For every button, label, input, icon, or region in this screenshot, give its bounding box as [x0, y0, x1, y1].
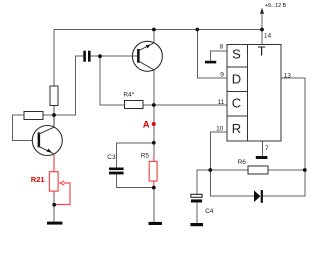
- capacitor C3: [109, 168, 124, 175]
- ground under C4: [190, 223, 203, 226]
- wire node to C4 top: [197, 170, 210, 194]
- wire R21 bottom to ground: [53, 194, 55, 222]
- wire node to C2 left plate: [54, 56, 83, 115]
- junction pin 13/R6/diode node: [303, 168, 307, 172]
- wire pin 13 to right bus: [263, 78, 305, 196]
- diode VD1: [254, 190, 263, 203]
- svg-text:C3: C3: [107, 154, 116, 161]
- capacitor C2 (coupling): [83, 51, 90, 62]
- wire pin 11: [154, 104, 227, 106]
- wire power stem: [261, 14, 263, 30]
- svg-text:10: 10: [216, 125, 224, 132]
- wire pin 14: [261, 30, 263, 45]
- wire C4 bottom to ground: [196, 203, 198, 224]
- resistor R21 (red trimmer): [49, 154, 70, 205]
- svg-text:+9...12 В: +9...12 В: [265, 3, 287, 9]
- resistor R2 (horizontal, base bias): [24, 111, 43, 119]
- ground pin 8: [205, 61, 216, 64]
- svg-text:R: R: [232, 121, 241, 136]
- wire R5 bottom to ground: [153, 188, 155, 222]
- wire R2 left to Q1 base: [13, 115, 33, 140]
- transistor Q1: [32, 115, 62, 156]
- power arrow +9...12V: [260, 3, 287, 14]
- svg-text:9: 9: [220, 71, 224, 78]
- svg-text:C: C: [232, 96, 241, 111]
- svg-text:C4: C4: [205, 208, 214, 215]
- svg-text:R5: R5: [141, 152, 150, 159]
- resistor R6: [248, 166, 268, 174]
- svg-text:R21: R21: [31, 175, 45, 184]
- junction Q2 emitter on supply rail: [152, 28, 156, 32]
- svg-text:8: 8: [220, 44, 224, 51]
- wire pin 7 to ground: [261, 141, 263, 156]
- ground under R5/C3: [149, 222, 162, 225]
- svg-text:A: A: [143, 119, 150, 130]
- wire rail to pin 9: [197, 30, 227, 79]
- wire R1 bottom to node: [53, 106, 55, 115]
- junction Q1 collector node: [52, 113, 56, 117]
- svg-text:7: 7: [265, 145, 269, 152]
- junction C3 top node: [152, 141, 156, 145]
- svg-text:14: 14: [264, 33, 272, 40]
- wire Q2 emitter to rail: [153, 30, 155, 43]
- junction R4/pin 11 node: [152, 103, 156, 107]
- wire node to C3 top: [116, 143, 153, 168]
- ground under R21: [47, 222, 62, 225]
- node A (red): [143, 119, 156, 130]
- svg-text:S: S: [232, 47, 241, 62]
- wire diode anode row: [210, 170, 254, 196]
- wire pin 10: [210, 132, 227, 170]
- junction C2/Q2 base node: [98, 54, 102, 58]
- wire pin 8 to ground: [210, 51, 227, 61]
- wire R6 right lead: [268, 169, 305, 171]
- svg-text:11: 11: [218, 99, 225, 106]
- wire C2 right plate to node: [91, 55, 100, 57]
- svg-text:R6: R6: [238, 159, 247, 166]
- resistor R1 (vertical, upper left): [50, 86, 58, 106]
- wire node down to R4 left lead: [100, 56, 124, 105]
- junction C3/R5 bottom node: [152, 186, 156, 190]
- transistor Q2: [132, 41, 162, 71]
- wire top supply rail: [54, 30, 262, 87]
- junction pin 10/R6/C4 node: [208, 168, 212, 172]
- junction power tap on supply rail: [260, 28, 264, 32]
- svg-text:T: T: [258, 44, 266, 59]
- junction R21 wiper/bottom node: [52, 203, 56, 207]
- trimmer wiper arrow: [60, 181, 64, 185]
- wire Q2 collector down: [153, 70, 155, 157]
- svg-text:R4*: R4*: [123, 91, 134, 98]
- IC U1 box: [227, 44, 281, 141]
- ground pin 7: [256, 156, 268, 159]
- svg-text:D: D: [232, 71, 241, 86]
- capacitor C4 (polarized): [191, 194, 202, 202]
- wire node to Q2 base: [100, 55, 137, 57]
- junction pin 9 tap on supply rail: [195, 28, 199, 32]
- wire R6 left lead: [210, 169, 248, 171]
- wire R2 right lead: [43, 114, 54, 116]
- resistor R4*: [124, 100, 142, 108]
- wire C3 bottom to node: [116, 174, 153, 187]
- wire R4 right lead to node: [143, 104, 154, 106]
- svg-text:13: 13: [284, 72, 292, 79]
- resistor R5 (red): [149, 157, 157, 187]
